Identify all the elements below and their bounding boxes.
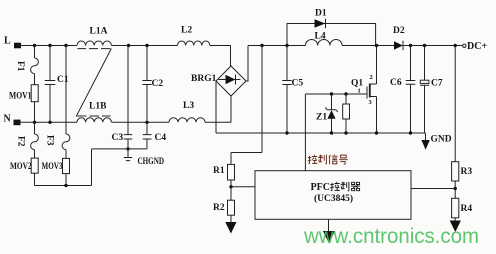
resistor R4 xyxy=(452,198,459,218)
junction on N rail at C2/C4 xyxy=(145,121,148,124)
svg-text:Z1: Z1 xyxy=(316,113,327,123)
svg-text:BRG1: BRG1 xyxy=(191,74,217,84)
junction DC+ at C6 xyxy=(409,44,412,47)
capacitor C6 xyxy=(406,46,416,134)
svg-text:L1B: L1B xyxy=(89,102,107,112)
junction gate at Rg xyxy=(344,92,347,95)
wire DC+ rail xyxy=(248,45,463,47)
diode D1 xyxy=(315,19,326,28)
svg-text:F1: F1 xyxy=(15,61,25,72)
junction on L rail at C2 xyxy=(145,44,148,47)
wire L rail left xyxy=(17,45,77,47)
junction DC+ at R3 xyxy=(454,44,457,47)
fuse F3 xyxy=(62,134,70,158)
wire divider to controller xyxy=(231,186,255,188)
svg-text:R4: R4 xyxy=(461,204,473,214)
capacitor C5 xyxy=(282,46,291,134)
svg-text:DC+: DC+ xyxy=(467,41,487,52)
wire gate line xyxy=(305,93,366,95)
zener Z1 xyxy=(325,94,338,112)
svg-text:L4: L4 xyxy=(315,32,326,42)
varistor MOV3 xyxy=(63,158,70,173)
svg-text:C6: C6 xyxy=(390,78,402,88)
svg-text:www.cntronics.com: www.cntronics.com xyxy=(303,225,479,248)
terminal N xyxy=(14,120,21,126)
svg-text:N: N xyxy=(4,114,12,125)
capacitor C3 xyxy=(124,46,133,149)
wire bridge bottom to N rail xyxy=(230,96,232,122)
junction on L rail at F3 line xyxy=(64,44,67,47)
svg-text:C4: C4 xyxy=(155,133,167,143)
junction on N rail at MOV1/F2 xyxy=(33,121,36,124)
wire L rail to bridge top xyxy=(210,46,231,67)
svg-text:L: L xyxy=(4,36,11,47)
junction DC- at C6 xyxy=(409,131,412,134)
svg-text:R2: R2 xyxy=(213,203,225,213)
inductor L4 xyxy=(306,39,343,45)
junction on N rail at C1 xyxy=(48,121,51,124)
capacitor C1 xyxy=(45,46,56,123)
svg-text:(UC3845): (UC3845) xyxy=(314,193,353,204)
svg-text:F2: F2 xyxy=(16,136,26,147)
inductor L2 xyxy=(178,41,210,46)
core of L1A/L1B (common mode choke) xyxy=(76,49,111,116)
junction DC- at Z1 xyxy=(330,131,333,134)
junction DC- at C5 xyxy=(285,131,288,134)
svg-text:R1: R1 xyxy=(213,166,225,176)
wire N rail mid xyxy=(112,121,170,123)
wire R3 to R4 xyxy=(454,181,456,198)
junction DC- at Q1 source xyxy=(375,131,378,134)
resistor R3 xyxy=(452,162,459,181)
svg-text:F3: F3 xyxy=(45,135,55,146)
svg-text:MOV3: MOV3 xyxy=(42,162,63,172)
wire bridge left to DC- rail xyxy=(215,81,217,133)
junction on L rail at C3 xyxy=(127,44,130,47)
chassis ground CH-GND xyxy=(124,149,132,161)
wire divider to controller right xyxy=(411,188,455,190)
junction chassis wire at C3 xyxy=(126,147,129,150)
svg-text:R3: R3 xyxy=(461,167,473,177)
junction MOV3 bottom xyxy=(64,184,67,187)
resistor Rg (gate pulldown) xyxy=(345,94,347,104)
svg-text:GND: GND xyxy=(431,135,452,145)
junction DC- at Rg xyxy=(344,131,347,134)
diode D1 bypass branch xyxy=(287,24,376,46)
wire R1 to R2 xyxy=(230,180,232,200)
inductor L3 xyxy=(169,118,205,123)
resistor R3 column from DC+ xyxy=(454,46,456,162)
label control signal (red) xyxy=(308,155,348,165)
op-amp U1 PFC controller box xyxy=(255,171,411,220)
wire bridge right up to DC+ rail xyxy=(246,46,248,82)
svg-text:D2: D2 xyxy=(393,26,405,36)
varistor MOV2 xyxy=(31,158,38,173)
svg-text:1: 1 xyxy=(358,88,361,95)
ground GND arrow on DC- rail xyxy=(425,133,427,140)
wire MOV1 to N rail xyxy=(34,102,36,123)
junction R1/R2 xyxy=(229,185,232,188)
svg-text:L3: L3 xyxy=(183,101,194,111)
svg-text:C5: C5 xyxy=(292,79,304,89)
svg-text:2: 2 xyxy=(370,74,373,81)
capacitor C4 xyxy=(143,122,152,149)
ground below R4 xyxy=(454,218,456,221)
svg-text:MOV2: MOV2 xyxy=(10,162,32,172)
capacitor C2 xyxy=(142,46,151,123)
ground below R2 xyxy=(230,215,232,222)
wire L to F3 (crosses N rail) xyxy=(65,46,67,135)
svg-text:PFC: PFC xyxy=(311,182,330,193)
fuse F1 xyxy=(31,46,39,85)
terminal L xyxy=(14,43,21,49)
svg-text:C3: C3 xyxy=(112,133,124,143)
wire N rail to bridge bottom xyxy=(205,121,231,123)
inductor L1A xyxy=(77,41,111,45)
junction DC+ at D1/Q1 xyxy=(375,44,378,47)
wire MOV2/MOV3 bottom to chassis xyxy=(35,149,148,186)
transistor Q1 (MOSFET) xyxy=(370,46,377,85)
svg-text:C7: C7 xyxy=(431,79,443,89)
wire N rail left xyxy=(17,121,77,123)
junction gate at Z1 xyxy=(330,92,333,95)
wire L rail mid xyxy=(112,45,178,47)
inductor L1B xyxy=(77,118,111,123)
resistor R1 xyxy=(228,164,235,180)
junction DC+ at sense line xyxy=(260,44,263,47)
resistor R2 xyxy=(228,200,235,215)
svg-text:L2: L2 xyxy=(181,26,192,36)
wire DC- rail xyxy=(216,132,426,134)
wire sense line from DC+ to R1 xyxy=(231,46,262,165)
svg-text:D1: D1 xyxy=(315,9,327,19)
junction DC+ at C7 xyxy=(423,44,426,47)
svg-text:C2: C2 xyxy=(152,79,164,89)
diode D2 xyxy=(394,41,403,50)
junction on L rail at C1 xyxy=(48,44,51,47)
capacitor C7 (polarized) xyxy=(424,46,426,81)
svg-text:CHGND: CHGND xyxy=(138,157,165,167)
junction R3/R4 xyxy=(454,187,457,190)
bridge rectifier BRG1 xyxy=(216,66,246,96)
varistor MOV1 xyxy=(31,85,38,102)
wire control signal xyxy=(304,94,306,171)
ground below controller xyxy=(328,219,330,231)
terminal DC+ xyxy=(463,44,466,47)
junction DC+ at C5/D1 xyxy=(285,44,288,47)
svg-text:L1A: L1A xyxy=(90,27,108,37)
junction on L rail at F1 xyxy=(33,44,36,47)
svg-text:MOV1: MOV1 xyxy=(9,92,32,102)
svg-text:C1: C1 xyxy=(57,75,69,85)
fuse F2 xyxy=(31,122,39,158)
